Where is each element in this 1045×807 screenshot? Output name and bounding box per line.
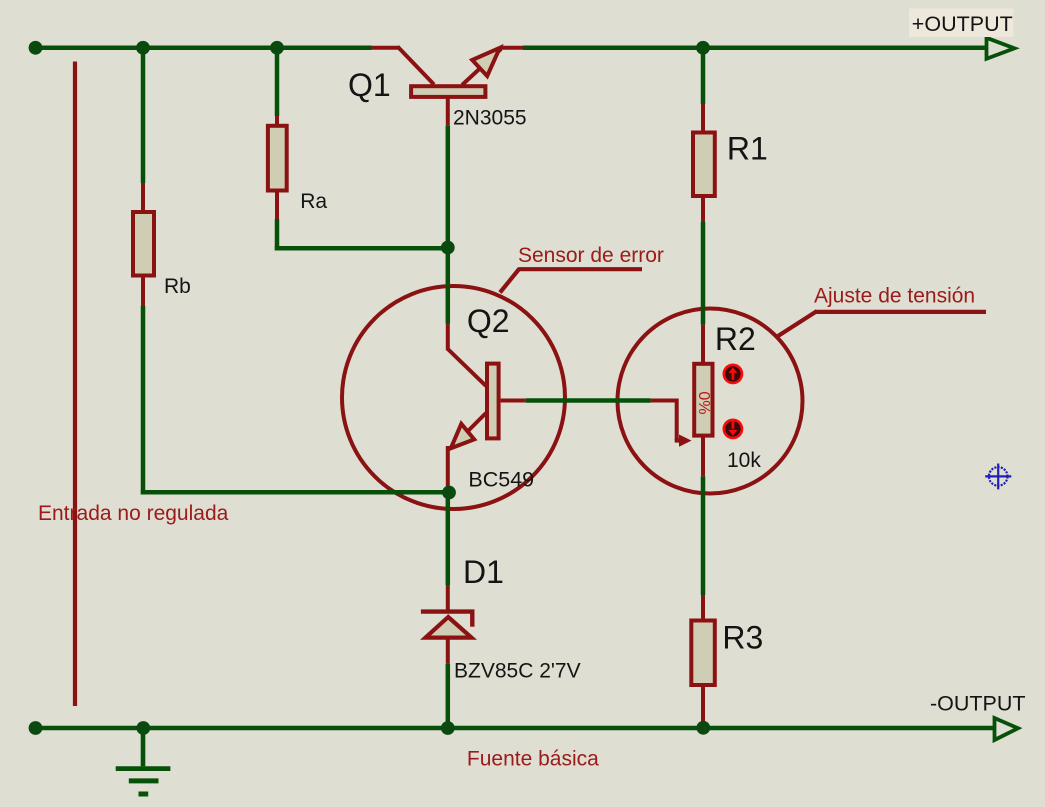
svg-text:Ajuste de tensión: Ajuste de tensión	[814, 284, 975, 307]
svg-text:BC549: BC549	[468, 467, 534, 491]
svg-text:Fuente básica: Fuente básica	[467, 748, 599, 771]
svg-text:Sensor de error: Sensor de error	[518, 244, 664, 267]
svg-text:Ra: Ra	[300, 190, 327, 213]
svg-text:+OUTPUT: +OUTPUT	[912, 12, 1013, 36]
svg-text:Q2: Q2	[467, 303, 510, 339]
svg-text:10k: 10k	[727, 449, 761, 472]
svg-text:2N3055: 2N3055	[453, 106, 527, 129]
svg-text:Q1: Q1	[348, 67, 391, 103]
svg-text:Entrada no regulada: Entrada no regulada	[38, 502, 229, 525]
svg-text:Rb: Rb	[164, 275, 191, 298]
svg-text:R2: R2	[715, 321, 756, 357]
svg-text:D1: D1	[463, 554, 504, 590]
svg-text:R1: R1	[727, 131, 768, 167]
svg-text:R3: R3	[722, 620, 763, 656]
svg-text:-OUTPUT: -OUTPUT	[930, 692, 1026, 716]
svg-text:%0: %0	[697, 391, 714, 414]
svg-text:BZV85C 2'7V: BZV85C 2'7V	[454, 660, 581, 683]
